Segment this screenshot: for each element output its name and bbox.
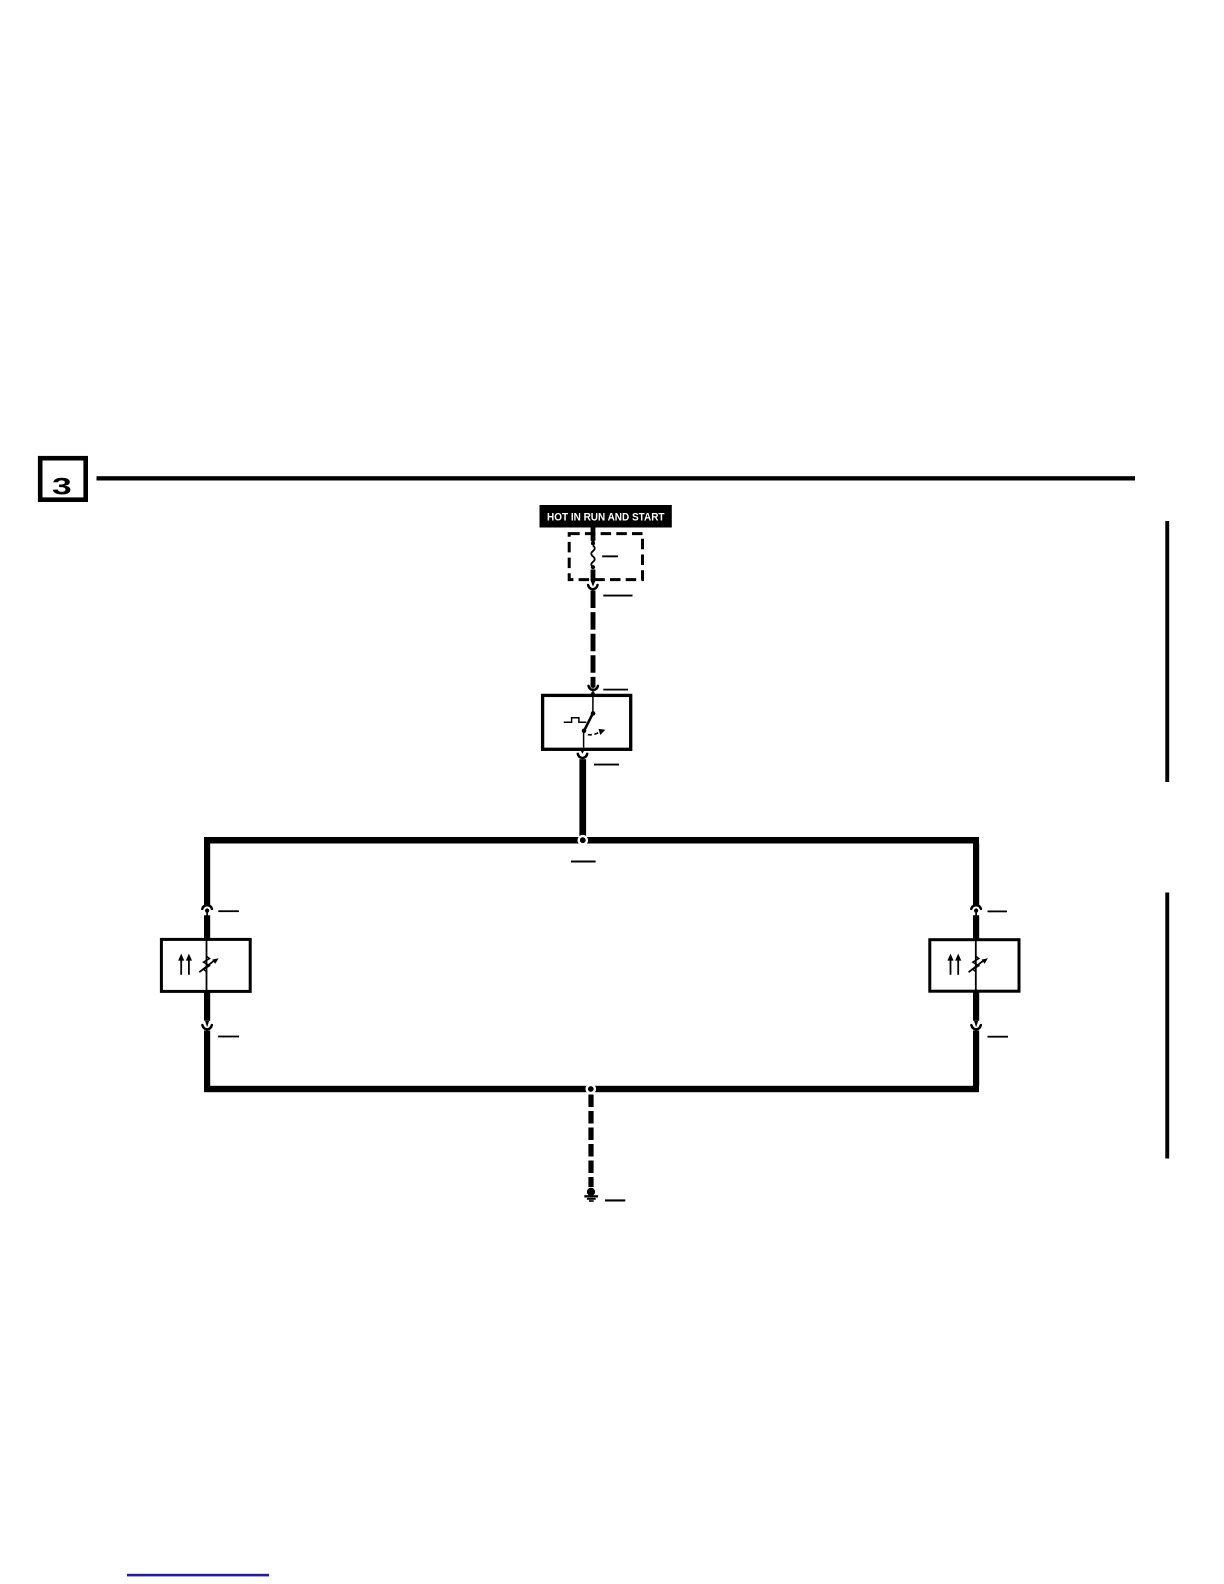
wire (dashed) fuse to relay	[591, 591, 596, 690]
wire right drop from bus	[973, 844, 979, 906]
temperature arrow 1	[180, 960, 182, 975]
variable resistor zigzag	[973, 956, 979, 974]
connector left upper	[202, 905, 212, 915]
wire label (blank) below top bus	[571, 861, 596, 863]
connector above relay	[589, 686, 598, 696]
heated seat element right (variable resistor)	[930, 940, 1019, 992]
relay pin line top	[592, 697, 594, 712]
connector right lower	[971, 1025, 980, 1029]
relay pin line bottom	[583, 733, 585, 748]
footer link line	[127, 1574, 269, 1577]
connector left lower	[202, 1025, 211, 1029]
section marker box 3	[40, 458, 85, 500]
wire label (blank) left lower	[218, 1036, 239, 1038]
header rule	[97, 476, 1136, 480]
temperature arrow 2	[957, 960, 959, 975]
bus bottom	[204, 1086, 979, 1092]
relay switch blade	[584, 713, 593, 730]
margin bar upper	[1165, 521, 1169, 782]
wire (dashed) to ground	[588, 1095, 593, 1188]
connector below relay	[578, 750, 587, 759]
fuse (dashed box)	[569, 534, 642, 587]
wire label (blank) right lower	[988, 1036, 1009, 1038]
wire left down to bottom bus	[204, 1031, 210, 1087]
wire left drop from bus	[204, 844, 210, 906]
variable resistor diagonal arrow	[969, 960, 984, 972]
fuse output stub	[591, 570, 596, 581]
ground label (blank)	[605, 1199, 625, 1201]
node junction on bottom bus	[586, 1084, 597, 1095]
wire label (blank) below fuse	[603, 595, 632, 597]
relay contact dot lower	[582, 729, 587, 734]
fuse label (blank)	[602, 555, 618, 557]
variable resistor zigzag	[204, 956, 210, 974]
ground G	[584, 1188, 598, 1202]
element center line	[206, 939, 208, 991]
temperature arrow 2	[188, 960, 190, 975]
wire stub below left element	[204, 991, 210, 1027]
fuse element squiggle	[591, 546, 594, 568]
svg-text:3: 3	[52, 473, 72, 500]
variable resistor diagonal arrow	[199, 960, 214, 972]
pulse / timing symbol	[564, 718, 587, 723]
actuation dashed arc	[588, 732, 600, 735]
element center line	[975, 940, 977, 992]
heated seat element left (variable resistor)	[161, 939, 250, 991]
relay contact dot upper	[591, 711, 596, 716]
wire right down to bottom bus	[973, 1031, 979, 1087]
wire label (blank) right upper	[988, 911, 1007, 913]
fuse terminal dot bottom	[591, 565, 595, 569]
wire stub from hot label to fuse	[591, 527, 596, 543]
connector right upper	[971, 905, 981, 915]
svg-text:HOT IN RUN AND START: HOT IN RUN AND START	[547, 511, 665, 523]
wire relay to top bus	[579, 759, 586, 838]
label HOT IN RUN AND START	[540, 505, 672, 528]
fuse terminal dot top	[591, 541, 595, 545]
bus top	[204, 837, 979, 844]
margin bar lower	[1165, 893, 1169, 1159]
connector below fuse	[588, 585, 597, 589]
wire label (blank) above relay	[603, 689, 628, 691]
wire label (blank) left upper	[218, 910, 239, 912]
wire label (blank) below relay	[594, 764, 619, 766]
wire stub below right element	[973, 991, 979, 1027]
node junction on top bus	[578, 835, 589, 846]
wire stub into right element	[973, 915, 979, 940]
wire stub into left element	[204, 915, 210, 939]
relay / timer module box	[543, 695, 631, 749]
temperature arrow 1	[950, 960, 952, 975]
